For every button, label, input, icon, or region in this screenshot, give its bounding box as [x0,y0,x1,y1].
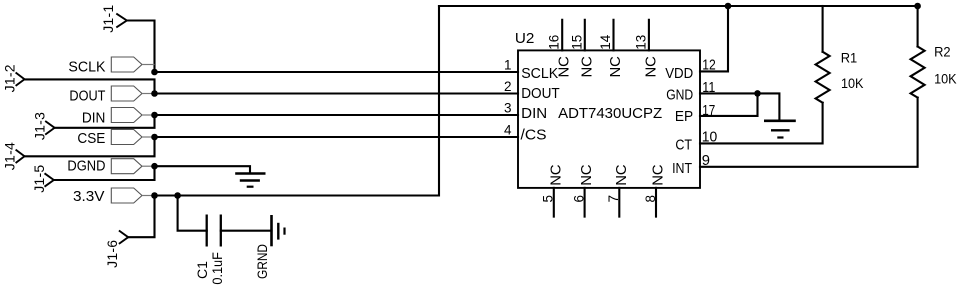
svg-text:SCLK: SCLK [521,66,558,82]
connector pin J1-6 [104,231,128,268]
net flag 3.3V [73,188,155,205]
svg-text:J1-1: J1-1 [100,5,116,33]
wire net SCLK to U2 pin 1 [155,71,519,73]
svg-text:DOUT: DOUT [521,86,560,102]
svg-text:1: 1 [504,57,512,72]
wire C1 to GRND [221,230,272,232]
connector pin J1-2 [2,64,25,92]
junction DOUT node [151,90,158,97]
U2 pin 5 stub [553,188,555,217]
svg-text:NC: NC [608,56,624,78]
svg-text:/CS: /CS [521,128,547,144]
svg-text:12: 12 [702,58,716,74]
wire net DOUT to U2 pin 2 [155,92,519,94]
wire J1-2 to DOUT node [25,79,155,93]
svg-text:NC: NC [548,164,564,186]
wire U2 pin 9 INT to R2 [700,98,918,167]
junction VDD rail to R2 [914,3,921,10]
svg-text:ADT7430UCPZ: ADT7430UCPZ [558,106,662,122]
svg-text:GND: GND [666,87,693,103]
svg-text:13: 13 [633,35,648,50]
svg-text:J1-3: J1-3 [32,112,48,140]
svg-text:0.1uF: 0.1uF [209,252,225,285]
svg-text:DIN: DIN [82,109,106,126]
svg-text:17: 17 [702,103,715,119]
svg-text:10: 10 [702,129,718,145]
svg-text:11: 11 [702,80,715,96]
wire net DIN to U2 pin 3 [155,114,519,116]
svg-text:U2: U2 [515,30,535,47]
connector pin J1-5 [31,165,54,193]
svg-text:NC: NC [579,56,595,78]
svg-text:9: 9 [702,153,710,169]
wire net 3.3V to VDD rail [155,6,440,196]
svg-text:GRND: GRND [254,244,270,279]
svg-text:J1-4: J1-4 [2,142,18,170]
svg-text:16: 16 [547,35,562,50]
junction CSE node [151,134,158,141]
U2 pin 6 stub [584,188,586,217]
svg-text:J1-2: J1-2 [2,64,18,92]
wire J1-4 to CSE node [25,137,155,156]
svg-text:J1-6: J1-6 [104,240,120,268]
svg-text:3.3V: 3.3V [73,188,105,205]
svg-text:14: 14 [598,34,613,50]
junction 3.3V node [151,192,158,199]
net flag DOUT [69,86,154,104]
net flag SCLK [68,57,154,75]
svg-text:6: 6 [572,195,587,203]
svg-text:10K: 10K [841,76,864,91]
net flag DGND [67,158,154,175]
ground symbol GRND [254,215,285,279]
junction VDD rail to U2 pin 12 [725,3,732,10]
svg-text:3: 3 [504,100,512,115]
wire net DGND to ground [155,166,251,172]
svg-text:10K: 10K [934,72,957,87]
svg-text:DIN: DIN [521,106,547,122]
resistor R1 [816,6,864,103]
wire J1-5 to DGND node [54,166,155,180]
U2 pin 7 stub [618,188,620,217]
capacitor C1 [194,215,225,285]
junction DGND node [151,163,158,170]
svg-text:NC: NC [651,164,667,186]
U2 pin 13 stub [648,20,650,51]
U2 pin 8 stub [655,188,657,217]
svg-text:7: 7 [606,195,621,203]
svg-text:NC: NC [643,56,659,78]
svg-text:2: 2 [504,79,512,94]
svg-text:J1-5: J1-5 [31,165,47,193]
junction SCLK node [151,69,158,76]
ground symbol at U2 GND [764,121,796,138]
svg-text:VDD: VDD [665,66,693,82]
svg-text:CSE: CSE [77,130,105,147]
resistor R2 [911,6,957,98]
svg-text:C1: C1 [194,261,210,279]
svg-text:NC: NC [557,56,573,78]
svg-text:CT: CT [675,138,692,154]
wire U2 pin 11 GND to ground [700,93,779,120]
wire VDD top rail [439,5,918,7]
svg-text:R1: R1 [841,51,858,66]
junction GND-EP node [754,90,761,97]
svg-text:NC: NC [579,164,595,186]
svg-text:15: 15 [569,35,584,50]
junction DIN node [151,112,158,119]
svg-text:DOUT: DOUT [69,87,105,104]
svg-text:EP: EP [675,109,693,125]
svg-text:INT: INT [672,161,692,177]
wire J1-1 to SCLK node [127,21,155,73]
wire net CSE to U2 pin 4 [155,136,519,138]
wire U2 pin 17 EP to GND net [700,93,758,116]
connector pin J1-1 [100,5,127,33]
svg-text:DGND: DGND [67,158,105,175]
IC U2 body [515,30,700,188]
wire J1-6 to 3.3V node [128,196,154,238]
connector pin J1-3 [32,112,55,140]
net flag DIN [82,108,155,127]
U2 pin 14 stub [612,20,614,51]
ground symbol DGND [235,174,265,187]
wire U2 pin 10 CT to R1 [700,103,823,144]
junction 3.3V to C1 [174,192,181,199]
wire U2 pin 12 VDD [700,6,728,71]
net flag CSE [77,130,154,148]
svg-text:4: 4 [504,122,512,137]
wire 3.3V to capacitor C1 [178,196,207,231]
svg-text:R2: R2 [934,45,951,60]
wire J1-3 to DIN node [55,115,155,128]
svg-text:NC: NC [614,164,630,186]
svg-text:8: 8 [643,195,658,203]
svg-text:SCLK: SCLK [68,58,105,75]
U2 pin 15 stub [584,20,586,51]
connector pin J1-4 [2,142,25,170]
svg-text:5: 5 [541,195,556,203]
U2 pin 16 stub [561,20,563,51]
